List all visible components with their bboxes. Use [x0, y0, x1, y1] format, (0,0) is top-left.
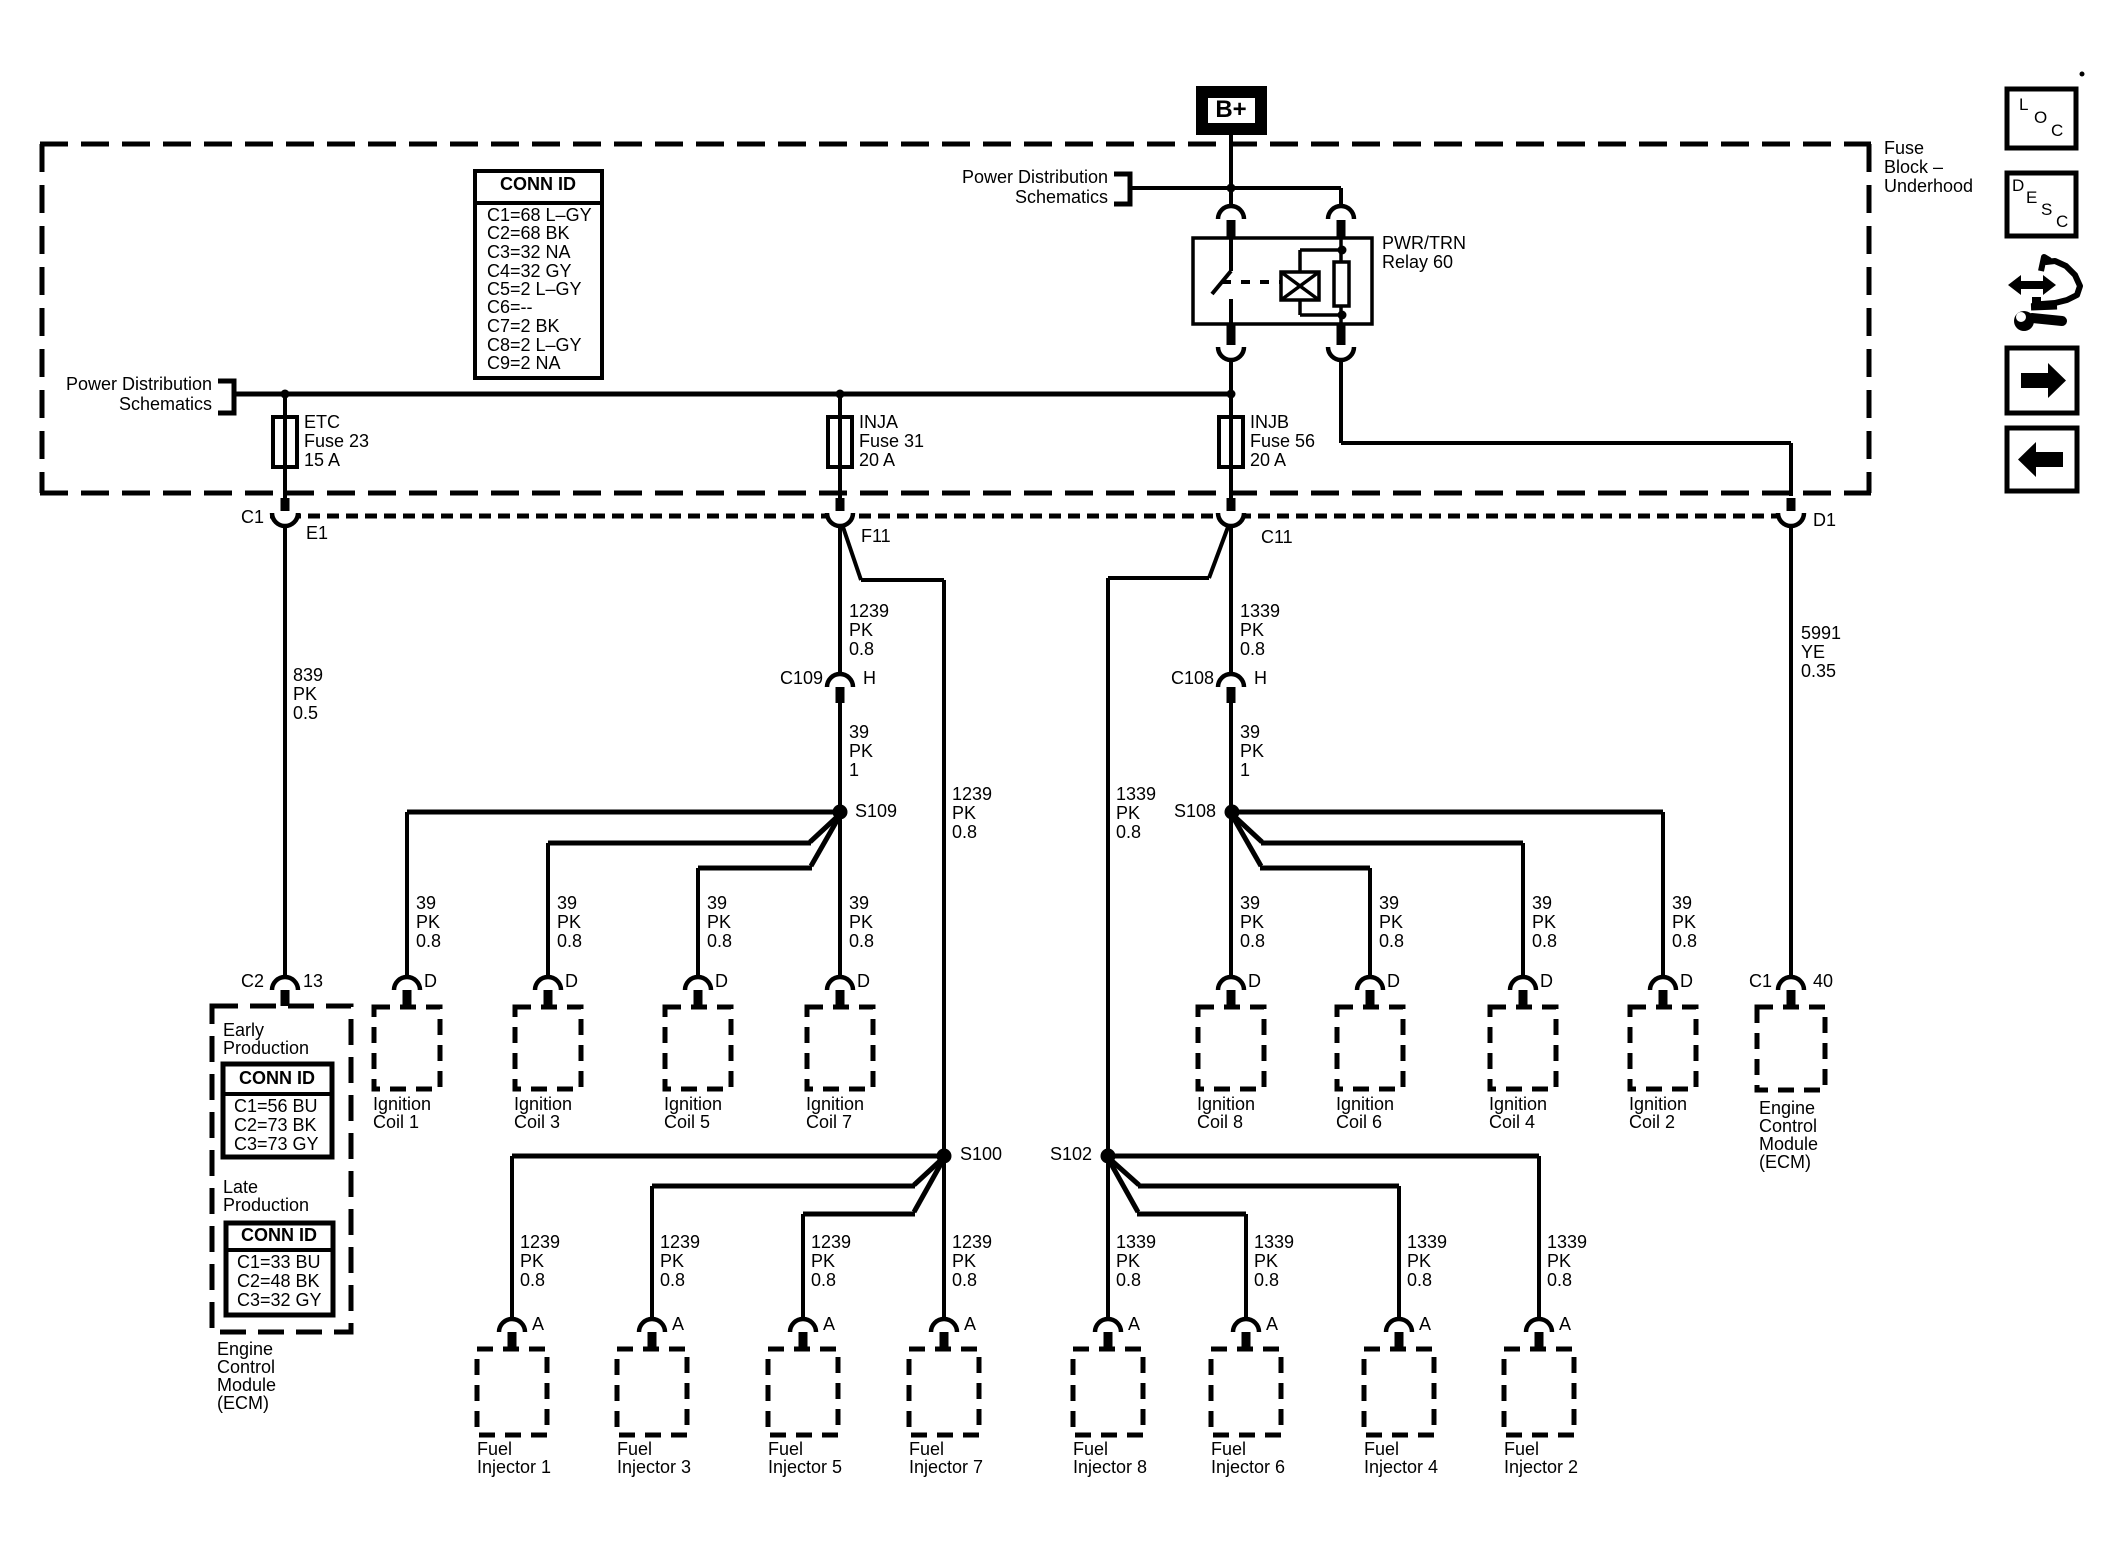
svg-text:Power Distribution: Power Distribution — [66, 374, 212, 394]
svg-text:C2=48 BK: C2=48 BK — [237, 1271, 320, 1291]
svg-text:PK: PK — [849, 912, 873, 932]
svg-text:0.35: 0.35 — [1801, 661, 1836, 681]
svg-text:PK: PK — [660, 1251, 684, 1271]
relay coil wire top — [1300, 250, 1342, 272]
svg-text:C1=68 L–GY: C1=68 L–GY — [487, 205, 592, 225]
svg-text:Fuel: Fuel — [1211, 1439, 1246, 1459]
svg-text:C1=33 BU: C1=33 BU — [237, 1252, 321, 1272]
connector C2 pin 13 — [241, 971, 323, 1006]
svg-text:0.8: 0.8 — [707, 931, 732, 951]
svg-text:PK: PK — [1240, 620, 1264, 640]
svg-text:0.8: 0.8 — [557, 931, 582, 951]
label 39 PK 0.8 (coil 2) — [1672, 893, 1697, 951]
label 1239 PK 0.8 (injector 5) — [811, 1232, 851, 1290]
splice S100 — [937, 1144, 1003, 1164]
svg-text:Fuel: Fuel — [477, 1439, 512, 1459]
svg-text:Module: Module — [217, 1375, 276, 1395]
label Engine Control Module ECM (right) — [1759, 1098, 1818, 1172]
svg-text:Fuel: Fuel — [768, 1439, 803, 1459]
label Fuel Injector 3 — [617, 1439, 691, 1477]
svg-text:C5=2 L–GY: C5=2 L–GY — [487, 279, 582, 299]
svg-text:39: 39 — [416, 893, 436, 913]
stray dot artifact — [2080, 72, 2085, 77]
label Ignition Coil 4 — [1489, 1094, 1547, 1132]
svg-text:C9=2 NA: C9=2 NA — [487, 353, 561, 373]
svg-text:Production: Production — [223, 1195, 309, 1215]
svg-text:D: D — [1387, 971, 1400, 991]
svg-text:C1: C1 — [1749, 971, 1772, 991]
svg-text:C: C — [2051, 121, 2063, 140]
ignition coil 3 box — [515, 1007, 581, 1089]
svg-text:15 A: 15 A — [304, 450, 340, 470]
svg-text:PK: PK — [1116, 803, 1140, 823]
svg-text:0.8: 0.8 — [416, 931, 441, 951]
wire S108 to ignition coil 2 — [1239, 812, 1663, 977]
svg-text:S109: S109 — [855, 801, 897, 821]
splice S102 — [1050, 1144, 1116, 1164]
svg-text:PK: PK — [557, 912, 581, 932]
svg-text:39: 39 — [1532, 893, 1552, 913]
label 1339 PK 0.8 (injector 8) — [1116, 1232, 1156, 1290]
svg-text:39: 39 — [707, 893, 727, 913]
svg-text:20 A: 20 A — [1250, 450, 1286, 470]
svg-text:Schematics: Schematics — [119, 394, 212, 414]
connector D ignition coil 6 — [1357, 971, 1400, 1006]
label Ignition Coil 1 — [373, 1094, 431, 1132]
svg-text:Relay 60: Relay 60 — [1382, 252, 1453, 272]
connector D ignition coil 3 — [535, 971, 578, 1006]
svg-text:0.8: 0.8 — [1532, 931, 1557, 951]
label 1239 PK 0.8 (F11) — [849, 601, 889, 659]
svg-text:Injector 1: Injector 1 — [477, 1457, 551, 1477]
svg-text:Control: Control — [217, 1357, 275, 1377]
wire down to relay coil pin — [1339, 188, 1343, 207]
svg-text:(ECM): (ECM) — [1759, 1152, 1811, 1172]
svg-text:A: A — [672, 1314, 684, 1334]
connector D ignition coil 1 — [394, 971, 437, 1006]
connector A fuel injector 8 — [1095, 1314, 1140, 1348]
svg-text:0.8: 0.8 — [849, 931, 874, 951]
wire bus to ETC fuse — [283, 394, 287, 417]
svg-text:CONN ID: CONN ID — [239, 1068, 315, 1088]
svg-text:C7=2 BK: C7=2 BK — [487, 316, 560, 336]
wire S102 to fuel injector 8 — [1106, 1156, 1110, 1319]
fuse block CONN ID table — [475, 171, 602, 378]
label 1239 PK 0.8 (injector 1) — [520, 1232, 560, 1290]
relay pin 5 bottom connector — [1328, 324, 1354, 360]
svg-text:39: 39 — [557, 893, 577, 913]
svg-text:13: 13 — [303, 971, 323, 991]
label 39 PK 1 (right) — [1240, 722, 1264, 780]
svg-text:D: D — [565, 971, 578, 991]
svg-text:C2=73 BK: C2=73 BK — [234, 1115, 317, 1135]
svg-text:0.8: 0.8 — [1116, 1270, 1141, 1290]
label Ignition Coil 2 — [1629, 1094, 1687, 1132]
connector D ignition coil 4 — [1510, 971, 1553, 1006]
svg-text:D: D — [1540, 971, 1553, 991]
wire S109 to ignition coil 3 — [548, 816, 838, 977]
svg-text:40: 40 — [1813, 971, 1833, 991]
harness interface dotted line — [270, 514, 1795, 519]
svg-text:CONN ID: CONN ID — [500, 174, 576, 194]
svg-text:INJB: INJB — [1250, 412, 1289, 432]
label 1239 PK 0.8 (S100 feed) — [952, 784, 992, 842]
label Fuel Injector 6 — [1211, 1439, 1285, 1477]
wire S100 to fuel injector 5 — [803, 1162, 942, 1319]
main power bus wire — [234, 392, 1231, 397]
relay actuation dashed link — [1222, 280, 1281, 284]
svg-text:A: A — [532, 1314, 544, 1334]
svg-text:D: D — [424, 971, 437, 991]
wire 839 PK to ECM — [283, 526, 287, 977]
svg-text:Fuel: Fuel — [1504, 1439, 1539, 1459]
label Ignition Coil 8 — [1197, 1094, 1255, 1132]
wire relay out to D1 — [1341, 360, 1791, 496]
wire ETC fuse to C1 connector — [283, 467, 287, 511]
svg-text:C109: C109 — [780, 668, 823, 688]
relay pin 1 top connector — [1218, 206, 1244, 238]
svg-text:39: 39 — [1672, 893, 1692, 913]
svg-text:A: A — [964, 1314, 976, 1334]
svg-text:H: H — [863, 668, 876, 688]
svg-text:1239: 1239 — [660, 1232, 700, 1252]
wire 39 PK C108 to S108 — [1229, 703, 1233, 812]
svg-text:1239: 1239 — [811, 1232, 851, 1252]
ignition coil 7 box — [807, 1007, 873, 1089]
fuel injector 4 box — [1364, 1349, 1434, 1435]
connector D ignition coil 2 — [1650, 971, 1693, 1006]
svg-text:Coil 3: Coil 3 — [514, 1112, 560, 1132]
wire S102 to fuel injector 4 — [1111, 1160, 1399, 1319]
connector F11 — [827, 513, 891, 546]
power node B+ — [1200, 90, 1263, 131]
label 39 PK 0.8 (coil 4) — [1532, 893, 1557, 951]
svg-text:PK: PK — [520, 1251, 544, 1271]
svg-text:PK: PK — [416, 912, 440, 932]
label 1339 PK 0.8 (injector 6) — [1254, 1232, 1294, 1290]
svg-text:39: 39 — [849, 893, 869, 913]
svg-text:0.5: 0.5 — [293, 703, 318, 723]
connector C1 E1 — [241, 507, 328, 543]
svg-text:E: E — [2026, 188, 2037, 207]
wire S108 to ignition coil 8 — [1229, 812, 1233, 977]
label Power Distribution Schematics (left) — [66, 374, 212, 414]
connector D ignition coil 8 — [1218, 971, 1261, 1006]
svg-text:C3=32 NA: C3=32 NA — [487, 242, 571, 262]
svg-text:39: 39 — [1240, 722, 1260, 742]
svg-text:1: 1 — [849, 760, 859, 780]
svg-text:0.8: 0.8 — [1116, 822, 1141, 842]
svg-text:A: A — [1266, 1314, 1278, 1334]
connector C1 pin 40 — [1749, 971, 1833, 1006]
svg-text:0.8: 0.8 — [1240, 639, 1265, 659]
svg-text:C6=--: C6=-- — [487, 297, 533, 317]
stub D1 connector — [1787, 498, 1796, 511]
relay coil wire bottom — [1300, 300, 1342, 315]
connector A fuel injector 2 — [1526, 1314, 1571, 1348]
svg-text:PK: PK — [952, 1251, 976, 1271]
svg-text:C108: C108 — [1171, 668, 1214, 688]
connector D1 — [1778, 510, 1836, 530]
label PWR/TRN Relay 60 — [1382, 233, 1466, 272]
off-page bracket (left) — [218, 381, 234, 413]
svg-text:Late: Late — [223, 1177, 258, 1197]
svg-text:1339: 1339 — [1547, 1232, 1587, 1252]
svg-text:Coil 7: Coil 7 — [806, 1112, 852, 1132]
wire C11 to C108 — [1229, 526, 1233, 676]
svg-text:Ignition: Ignition — [1489, 1094, 1547, 1114]
svg-text:Fuel: Fuel — [617, 1439, 652, 1459]
ECM early CONN ID table — [223, 1064, 332, 1157]
junction dot at B+ branch — [1227, 184, 1236, 193]
wire 39 PK C109 to S109 — [838, 703, 842, 812]
svg-text:Ignition: Ignition — [514, 1094, 572, 1114]
svg-text:A: A — [1419, 1314, 1431, 1334]
wire S109 to ignition coil 5 — [698, 817, 839, 977]
ECM dashed box — [212, 1006, 351, 1332]
relay switch contact — [1212, 238, 1231, 324]
svg-text:C2: C2 — [241, 971, 264, 991]
svg-text:S: S — [2041, 200, 2052, 219]
connector D ignition coil 7 — [827, 971, 870, 1006]
relay pin 3 bottom connector — [1218, 324, 1244, 360]
label 39 PK 0.8 (coil 5) — [707, 893, 732, 951]
svg-text:D: D — [857, 971, 870, 991]
label Ignition Coil 5 — [664, 1094, 722, 1132]
svg-text:PK: PK — [1532, 912, 1556, 932]
svg-text:Injector 8: Injector 8 — [1073, 1457, 1147, 1477]
relay internal wire pin2 — [1339, 238, 1343, 324]
label Fuel Injector 7 — [909, 1439, 983, 1477]
fuel injector 8 box — [1073, 1349, 1143, 1435]
svg-text:Fuse 31: Fuse 31 — [859, 431, 924, 451]
ignition coil 8 box — [1198, 1007, 1264, 1089]
svg-text:PK: PK — [1672, 912, 1696, 932]
svg-text:1239: 1239 — [952, 1232, 992, 1252]
label 1239 PK 0.8 (injector 7) — [952, 1232, 992, 1290]
svg-text:D: D — [1248, 971, 1261, 991]
label 39 PK 0.8 (coil 3) — [557, 893, 582, 951]
svg-text:PK: PK — [1254, 1251, 1278, 1271]
svg-text:B+: B+ — [1215, 96, 1246, 123]
svg-text:1339: 1339 — [1116, 1232, 1156, 1252]
svg-text:C1: C1 — [241, 507, 264, 527]
ECM right dashed box — [1757, 1007, 1825, 1090]
label Fuel Injector 4 — [1364, 1439, 1438, 1477]
label 839 PK 0.5 — [293, 665, 323, 723]
ignition coil 5 box — [665, 1007, 731, 1089]
svg-text:C4=32 GY: C4=32 GY — [487, 261, 572, 281]
svg-text:Coil 5: Coil 5 — [664, 1112, 710, 1132]
label 39 PK 0.8 (coil 1) — [416, 893, 441, 951]
svg-text:1339: 1339 — [1407, 1232, 1447, 1252]
label Fuse Block - Underhood — [1884, 138, 1973, 196]
wire B+ down to relay — [1229, 131, 1233, 207]
svg-text:Coil 1: Coil 1 — [373, 1112, 419, 1132]
icon next page arrow — [2007, 348, 2077, 413]
svg-text:Fuel: Fuel — [909, 1439, 944, 1459]
svg-text:PK: PK — [1116, 1251, 1140, 1271]
connector A fuel injector 4 — [1386, 1314, 1431, 1348]
label 39 PK 0.8 (coil 6) — [1379, 893, 1404, 951]
wire INJB fuse to C11 connector — [1229, 467, 1233, 511]
svg-text:PK: PK — [1407, 1251, 1431, 1271]
wire S108 to ignition coil 4 — [1234, 816, 1523, 977]
splice S109 — [833, 801, 898, 821]
wire F11 to C109 — [838, 526, 842, 676]
svg-text:839: 839 — [293, 665, 323, 685]
svg-text:Coil 2: Coil 2 — [1629, 1112, 1675, 1132]
svg-text:PK: PK — [707, 912, 731, 932]
svg-text:1: 1 — [1240, 760, 1250, 780]
svg-text:INJA: INJA — [859, 412, 898, 432]
svg-text:S100: S100 — [960, 1144, 1002, 1164]
junction dot ETC — [281, 390, 290, 399]
relay U1 PWR/TRN Relay 60 box — [1193, 238, 1372, 324]
svg-text:Module: Module — [1759, 1134, 1818, 1154]
svg-text:Engine: Engine — [1759, 1098, 1815, 1118]
svg-text:Injector 4: Injector 4 — [1364, 1457, 1438, 1477]
branch wire F11 to S100 — [843, 527, 944, 1156]
fuel injector 7 box — [909, 1349, 979, 1435]
relay internal junction dots — [1338, 246, 1347, 320]
svg-text:(ECM): (ECM) — [217, 1393, 269, 1413]
wire S109 to ignition coil 7 — [838, 812, 842, 977]
relay coil box with X — [1281, 272, 1319, 300]
svg-text:Injector 2: Injector 2 — [1504, 1457, 1578, 1477]
svg-text:Control: Control — [1759, 1116, 1817, 1136]
svg-text:1239: 1239 — [520, 1232, 560, 1252]
svg-text:Fuel: Fuel — [1073, 1439, 1108, 1459]
label 39 PK 0.8 (coil 8) — [1240, 893, 1265, 951]
label Late Production — [223, 1177, 309, 1215]
svg-text:A: A — [823, 1314, 835, 1334]
svg-text:Coil 8: Coil 8 — [1197, 1112, 1243, 1132]
svg-text:ETC: ETC — [304, 412, 340, 432]
svg-text:Injector 3: Injector 3 — [617, 1457, 691, 1477]
svg-text:CONN ID: CONN ID — [241, 1225, 317, 1245]
fuel injector 6 box — [1211, 1349, 1281, 1435]
svg-text:D1: D1 — [1813, 510, 1836, 530]
svg-text:Fuse 56: Fuse 56 — [1250, 431, 1315, 451]
label Fuel Injector 1 — [477, 1439, 551, 1477]
icon DESC button — [2007, 173, 2076, 236]
svg-text:F11: F11 — [861, 526, 891, 546]
wire relay out to fuse bus — [1229, 360, 1233, 394]
label 1339 PK 0.8 (S102 feed) — [1116, 784, 1156, 842]
svg-text:Engine: Engine — [217, 1339, 273, 1359]
svg-text:39: 39 — [849, 722, 869, 742]
svg-text:YE: YE — [1801, 642, 1825, 662]
fuel injector 5 box — [768, 1349, 838, 1435]
wire bracket to relay coil branch — [1130, 186, 1341, 190]
svg-text:D: D — [715, 971, 728, 991]
icon previous page arrow — [2007, 428, 2077, 491]
svg-text:Coil 6: Coil 6 — [1336, 1112, 1382, 1132]
svg-text:0.8: 0.8 — [1407, 1270, 1432, 1290]
connector A fuel injector 7 — [931, 1314, 976, 1348]
svg-text:Ignition: Ignition — [664, 1094, 722, 1114]
label 5991 YE 0.35 — [1801, 623, 1841, 681]
fuse ETC Fuse 23 15A — [273, 412, 369, 470]
label Ignition Coil 6 — [1336, 1094, 1394, 1132]
label Power Distribution Schematics (top) — [962, 167, 1108, 207]
svg-text:PK: PK — [1547, 1251, 1571, 1271]
svg-text:PWR/TRN: PWR/TRN — [1382, 233, 1466, 253]
svg-text:A: A — [1559, 1314, 1571, 1334]
svg-text:1339: 1339 — [1240, 601, 1280, 621]
svg-text:Fuse: Fuse — [1884, 138, 1924, 158]
label 1339 PK 0.8 (C11) — [1240, 601, 1280, 659]
label Early Production — [223, 1020, 309, 1058]
svg-text:Underhood: Underhood — [1884, 176, 1973, 196]
svg-text:E1: E1 — [306, 523, 328, 543]
svg-text:1339: 1339 — [1116, 784, 1156, 804]
svg-text:Ignition: Ignition — [1197, 1094, 1255, 1114]
connector C109 pin H — [780, 668, 876, 703]
svg-text:1239: 1239 — [952, 784, 992, 804]
relay pin 2 top connector — [1328, 206, 1354, 238]
wire S108 to ignition coil 6 — [1233, 817, 1370, 977]
svg-text:C: C — [2056, 212, 2068, 231]
splice S108 — [1174, 801, 1240, 821]
wire S102 to fuel injector 2 — [1115, 1156, 1539, 1319]
svg-text:0.8: 0.8 — [811, 1270, 836, 1290]
svg-text:0.8: 0.8 — [1254, 1270, 1279, 1290]
wire S102 to fuel injector 6 — [1110, 1162, 1246, 1319]
label 1239 PK 0.8 (injector 3) — [660, 1232, 700, 1290]
label Ignition Coil 7 — [806, 1094, 864, 1132]
wire INJA fuse to F11 connector — [838, 467, 842, 511]
svg-text:A: A — [1128, 1314, 1140, 1334]
connector A fuel injector 3 — [639, 1314, 684, 1348]
svg-text:PK: PK — [1379, 912, 1403, 932]
svg-text:C3=32 GY: C3=32 GY — [237, 1290, 322, 1310]
fuse block underhood dashed boundary box — [40, 144, 1871, 493]
svg-text:PK: PK — [849, 620, 873, 640]
wire S100 to fuel injector 1 — [512, 1156, 937, 1319]
svg-text:PK: PK — [293, 684, 317, 704]
label Fuel Injector 5 — [768, 1439, 842, 1477]
label 39 PK 0.8 (coil 7) — [849, 893, 874, 951]
svg-text:Schematics: Schematics — [1015, 187, 1108, 207]
connector C108 pin H — [1171, 668, 1267, 703]
connector A fuel injector 1 — [499, 1314, 544, 1348]
ignition coil 1 box — [374, 1007, 440, 1089]
svg-text:0.8: 0.8 — [952, 822, 977, 842]
label 1339 PK 0.8 (injector 4) — [1407, 1232, 1447, 1290]
svg-text:O: O — [2034, 108, 2047, 127]
connector A fuel injector 6 — [1233, 1314, 1278, 1348]
label 39 PK 1 (left) — [849, 722, 873, 780]
fuse INJA Fuse 31 20A — [828, 412, 924, 470]
svg-text:Fuse 23: Fuse 23 — [304, 431, 369, 451]
fuel injector 2 box — [1504, 1349, 1574, 1435]
svg-text:Power Distribution: Power Distribution — [962, 167, 1108, 187]
svg-text:Fuel: Fuel — [1364, 1439, 1399, 1459]
label Ignition Coil 3 — [514, 1094, 572, 1132]
svg-text:1239: 1239 — [849, 601, 889, 621]
wire bus to INJA fuse — [838, 394, 842, 417]
wire S100 to fuel injector 3 — [652, 1160, 941, 1319]
connector C11 — [1218, 513, 1293, 547]
svg-text:Injector 5: Injector 5 — [768, 1457, 842, 1477]
svg-text:Ignition: Ignition — [1336, 1094, 1394, 1114]
label 1339 PK 0.8 (injector 2) — [1547, 1232, 1587, 1290]
svg-text:PK: PK — [849, 741, 873, 761]
svg-text:L: L — [2019, 95, 2028, 114]
svg-text:D: D — [1680, 971, 1693, 991]
